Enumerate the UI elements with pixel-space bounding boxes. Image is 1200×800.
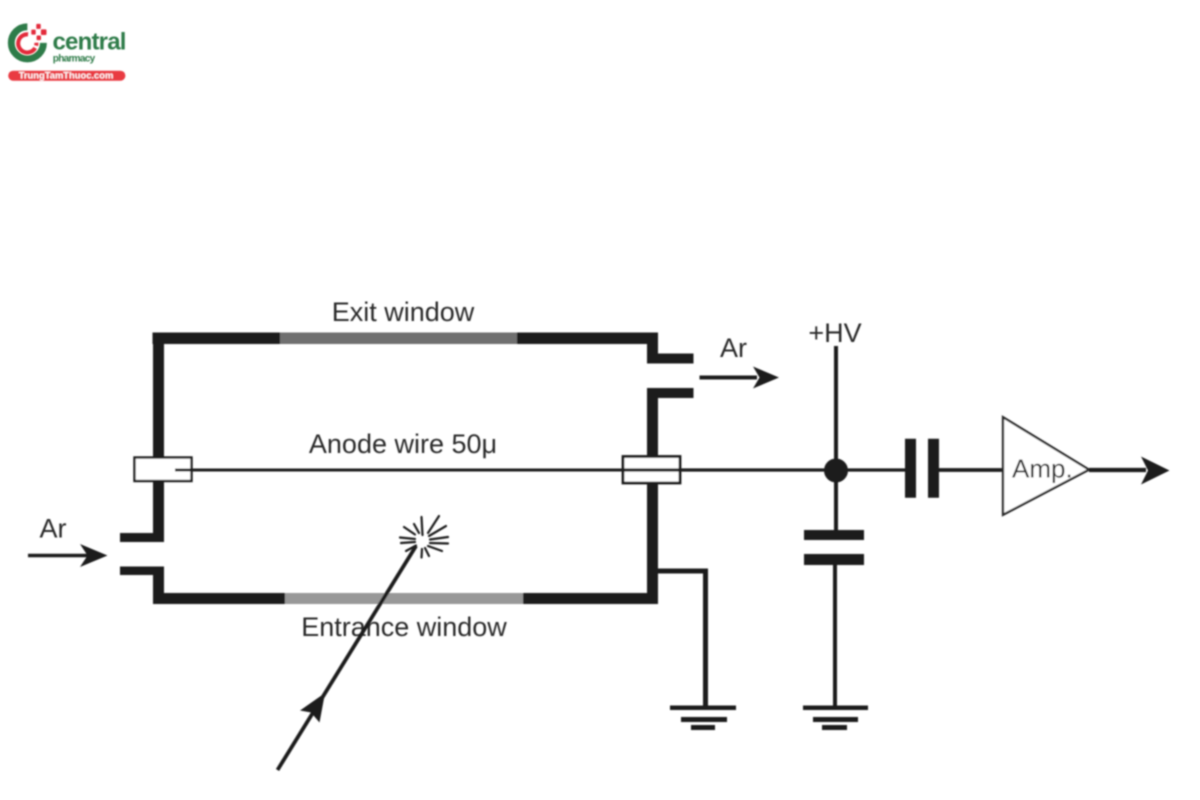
+HV supply line bbox=[834, 346, 838, 470]
wire capacitor to ground bbox=[833, 565, 837, 706]
svg-text:Amp.: Amp. bbox=[1012, 454, 1073, 484]
ground below capacitor bbox=[803, 706, 868, 731]
ground chamber bbox=[670, 706, 736, 731]
wire chamber to ground bbox=[652, 571, 706, 706]
junction node bbox=[824, 459, 848, 483]
svg-text:Entrance window: Entrance window bbox=[301, 612, 507, 642]
feedthrough insulator right bbox=[623, 457, 680, 484]
svg-text:pharmacy: pharmacy bbox=[53, 53, 96, 64]
svg-text:central: central bbox=[53, 28, 126, 55]
chamber bottom wall bbox=[153, 593, 658, 604]
logo red arc dash bbox=[34, 43, 38, 46]
svg-text:+HV: +HV bbox=[808, 318, 861, 348]
exit window gray segment bbox=[280, 333, 517, 345]
series coupling capacitor C2 bbox=[905, 439, 939, 498]
svg-text:Anode wire 50μ: Anode wire 50μ bbox=[309, 429, 497, 459]
output arrow bbox=[1089, 468, 1146, 472]
chamber left wall upper bbox=[153, 333, 164, 459]
amplifier U1 bbox=[1003, 417, 1089, 515]
chamber right wall lower bbox=[647, 483, 658, 604]
logo central pharmacy bbox=[8, 24, 125, 81]
svg-text:TrungTamThuoc.com: TrungTamThuoc.com bbox=[19, 70, 114, 81]
logo red inner arc bbox=[18, 34, 35, 52]
chamber left wall lower bbox=[153, 567, 164, 605]
svg-text:Ar: Ar bbox=[720, 333, 747, 363]
chamber top wall bbox=[153, 333, 659, 345]
chamber right wall mid bbox=[647, 388, 658, 458]
svg-text:Exit window: Exit window bbox=[332, 297, 475, 327]
gas outlet lower lip bbox=[647, 388, 694, 398]
gas inlet upper lip bbox=[120, 533, 164, 542]
logo banner bbox=[8, 71, 125, 81]
svg-text:Ar: Ar bbox=[40, 514, 67, 544]
wire capacitor to amplifier bbox=[939, 468, 1003, 472]
Ar outlet arrow bbox=[700, 376, 758, 380]
ionization star bbox=[400, 516, 448, 558]
anode wire bbox=[175, 469, 905, 472]
chamber left wall mid bbox=[153, 481, 164, 542]
entrance window gray segment bbox=[285, 593, 523, 604]
gas inlet lower lip bbox=[120, 567, 164, 576]
logo red cross bbox=[31, 24, 46, 40]
chamber right wall top bbox=[647, 333, 658, 364]
wire junction to shunt capacitor bbox=[834, 470, 838, 530]
radiation ray bbox=[278, 546, 417, 770]
anode wire through right insulator bbox=[623, 468, 905, 471]
gas outlet upper lip bbox=[647, 354, 694, 364]
shunt capacitor C1 bbox=[804, 530, 864, 565]
radiation arrowhead bbox=[300, 693, 325, 723]
feedthrough insulator left bbox=[135, 458, 192, 482]
Ar inlet arrow bbox=[28, 554, 88, 558]
anode wire stub in left insulator bbox=[175, 469, 191, 472]
logo green C arc bbox=[11, 27, 43, 59]
